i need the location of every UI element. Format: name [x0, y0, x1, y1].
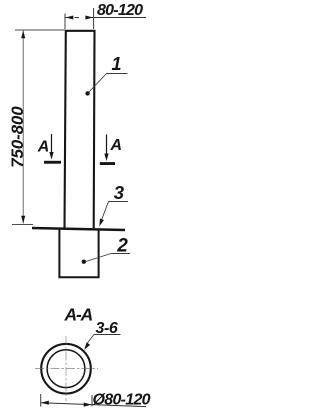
svg-text:750-800: 750-800 — [8, 106, 27, 168]
svg-text:2: 2 — [116, 235, 128, 256]
svg-text:Ø80-120: Ø80-120 — [93, 391, 151, 408]
svg-text:A-A: A-A — [64, 305, 93, 325]
svg-text:1: 1 — [112, 54, 122, 74]
svg-text:3-6: 3-6 — [96, 320, 118, 337]
svg-text:A: A — [110, 137, 123, 154]
svg-text:80-120: 80-120 — [97, 2, 143, 19]
svg-text:3: 3 — [114, 182, 125, 203]
svg-text:A: A — [37, 139, 50, 156]
